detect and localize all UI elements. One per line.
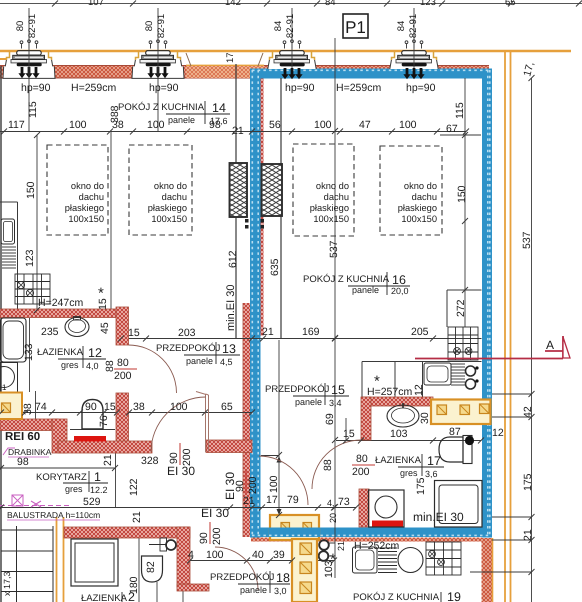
kitchen 14: dishwasher hatch block (2, 247, 16, 268)
svg-text:537: 537 (521, 231, 533, 249)
svg-text:21: 21 (262, 326, 274, 338)
svg-text:12: 12 (413, 384, 425, 396)
svg-text:12: 12 (492, 427, 504, 439)
dimension tick slashes (0, 75, 535, 575)
svg-text:15: 15 (128, 327, 140, 339)
svg-text:17: 17 (225, 52, 236, 63)
svg-text:328: 328 (141, 455, 159, 467)
bottom-left bathroom: shower (71, 539, 118, 586)
svg-text:hp=90: hp=90 (149, 82, 179, 94)
room 15 title (265, 383, 349, 408)
svg-text:30: 30 (419, 412, 431, 424)
svg-text:103: 103 (390, 428, 408, 440)
svg-text:dachu: dachu (162, 192, 187, 202)
svg-text:90: 90 (168, 452, 180, 464)
svg-text:okno do: okno do (154, 181, 187, 191)
row y413 (0, 412, 252, 414)
svg-text:123: 123 (24, 249, 36, 267)
svg-text:150: 150 (25, 181, 37, 199)
svg-text:H=247cm: H=247cm (38, 297, 83, 309)
pink strip under blue bottom edge (251, 538, 482, 542)
svg-text:H=259cm: H=259cm (336, 82, 381, 94)
svg-text:133: 133 (23, 343, 35, 361)
svg-text:15: 15 (97, 298, 109, 310)
door leaf 13->15 open (196, 392, 209, 453)
right inner dim vertical (464, 78, 466, 327)
80/200 stacked room17 door (352, 453, 375, 478)
recessed roof part between window 2 and 3 (186, 66, 264, 79)
box vertical below (292, 539, 317, 602)
svg-text:100x150: 100x150 (68, 214, 104, 224)
window W2 (131, 8, 184, 131)
svg-text:16: 16 (392, 273, 406, 287)
svg-text:180: 180 (128, 576, 140, 594)
svg-text:200: 200 (114, 370, 132, 382)
blue top edge (250, 69, 492, 79)
window W3 (on blue band) (268, 8, 316, 79)
svg-text:H=259cm: H=259cm (71, 82, 116, 94)
row y413 (35, 401, 233, 413)
row y338 (128, 326, 429, 339)
svg-text:200: 200 (352, 466, 370, 478)
svg-text:115: 115 (454, 102, 466, 119)
kitchen 19: boiler circle (398, 548, 423, 573)
svg-text:90: 90 (234, 480, 246, 492)
svg-text:100: 100 (69, 119, 87, 131)
svg-text:20,0: 20,0 (391, 286, 409, 296)
lazienka 17: toilet (439, 437, 463, 462)
svg-text:169: 169 (302, 326, 320, 338)
svg-text:PRZEDPOKÓJ: PRZEDPOKÓJ (265, 383, 330, 395)
svg-text:17: 17 (266, 494, 278, 506)
svg-text:18: 18 (276, 571, 290, 585)
svg-text:100: 100 (314, 119, 332, 131)
svg-text:47: 47 (359, 119, 371, 131)
svg-text:21: 21 (243, 495, 255, 507)
svg-text:76: 76 (98, 415, 110, 427)
svg-text:235: 235 (41, 326, 59, 338)
svg-text:80: 80 (117, 357, 129, 369)
svg-text:płaskiego: płaskiego (148, 203, 187, 213)
box at bathroom12 left (0, 393, 22, 420)
window W4 (on blue band) (390, 8, 438, 79)
svg-text:płaskiego: płaskiego (398, 203, 437, 213)
far right dim chain (531, 78, 533, 602)
svg-text:21: 21 (336, 541, 346, 551)
top dimension row (0, 131, 466, 133)
svg-text:82-91: 82-91 (285, 14, 296, 38)
svg-text:okno do: okno do (71, 181, 104, 191)
wall B vertical: x117 (116, 307, 129, 345)
svg-text:15: 15 (331, 383, 345, 397)
svg-text:19: 19 (447, 590, 461, 602)
bottom rows (188, 494, 299, 561)
svg-text:100: 100 (147, 119, 165, 131)
svg-text:hp=90: hp=90 (21, 82, 51, 94)
hp / H labels (21, 82, 436, 94)
room 19 title (353, 590, 461, 602)
svg-text:4,5: 4,5 (220, 357, 233, 367)
svg-text:x 17,3: x 17,3 (2, 571, 12, 596)
svg-text:gres: gres (400, 468, 418, 478)
svg-text:płaskiego: płaskiego (65, 203, 104, 213)
svg-text:dachu: dachu (324, 192, 349, 202)
top orange line (0, 50, 571, 52)
svg-text:100x150: 100x150 (313, 214, 349, 224)
wall between 13 and 15 (206, 440, 252, 453)
svg-text:80: 80 (356, 453, 368, 465)
svg-text:74: 74 (35, 401, 47, 413)
svg-text:200: 200 (181, 448, 193, 466)
svg-text:635: 635 (269, 258, 281, 276)
svg-text:45: 45 (99, 322, 111, 334)
svg-text:107: 107 (88, 0, 104, 8)
svg-text:17: 17 (427, 454, 441, 468)
svg-text:REI 60: REI 60 (5, 431, 40, 443)
svg-text:21: 21 (131, 511, 143, 523)
svg-text:12: 12 (88, 346, 102, 360)
svg-text:100x150: 100x150 (151, 214, 187, 224)
bathroom 12: bathtub (1, 318, 27, 362)
svg-text:117: 117 (8, 119, 25, 131)
kitchen 16 annex: hatch block (451, 364, 465, 385)
svg-text:388: 388 (109, 105, 121, 123)
svg-text:175: 175 (522, 473, 534, 491)
svg-text:ŁAZIENKA: ŁAZIENKA (37, 347, 84, 358)
svg-text:79: 79 (287, 494, 299, 506)
svg-text:1: 1 (94, 470, 101, 484)
rotated window labels (15, 14, 419, 38)
svg-text:56: 56 (269, 119, 281, 131)
svg-text:537: 537 (328, 240, 340, 258)
svg-text:73: 73 (338, 496, 350, 508)
svg-text:min.EI 30: min.EI 30 (413, 510, 464, 524)
bottom-left bathroom: toilet (142, 556, 163, 582)
door arcs (129, 345, 362, 590)
room 16 title (303, 272, 410, 296)
svg-text:14: 14 (212, 101, 226, 115)
svg-text:H=252cm: H=252cm (354, 540, 399, 552)
alcove lines (447, 289, 482, 291)
90/200 rotated room13->korytarz (168, 443, 193, 466)
svg-text:200: 200 (211, 527, 223, 545)
svg-text:98: 98 (17, 456, 29, 468)
svg-text:80: 80 (144, 21, 155, 32)
shaft corridor walls (235, 64, 237, 338)
svg-text:82-91: 82-91 (27, 14, 38, 38)
svg-text:panele: panele (168, 115, 195, 125)
svg-text:ŁAZIENKA: ŁAZIENKA (81, 593, 128, 602)
svg-text:82-91: 82-91 (408, 14, 419, 38)
svg-text:272: 272 (455, 299, 467, 317)
room 14 title (118, 101, 230, 126)
kitchen 19: hatch block (378, 548, 397, 573)
bathroom 12: wash basin (65, 318, 89, 337)
svg-text:PRZEDPOKÓJ: PRZEDPOKÓJ (210, 571, 275, 583)
svg-text:POKÓJ Z KUCHNIA: POKÓJ Z KUCHNIA (353, 591, 440, 602)
svg-text:100: 100 (206, 549, 224, 561)
kitchen counter left col (17, 202, 19, 310)
room 12 title (37, 346, 106, 371)
svg-text:82-91: 82-91 (156, 14, 167, 38)
svg-text:84: 84 (273, 21, 284, 32)
svg-text:123: 123 (420, 0, 436, 8)
bathroom 12 bottom walls / REI60 (0, 419, 58, 431)
red solid bars (74, 436, 106, 442)
lazienka 17: washing machine (369, 490, 405, 527)
svg-text:100: 100 (170, 401, 188, 413)
svg-text:płaskiego: płaskiego (310, 203, 349, 213)
80/200 stacked room13 door (114, 357, 137, 382)
dash texture on blue (252, 70, 491, 536)
orange vertical double line right (504, 52, 506, 602)
svg-text:dachu: dachu (412, 192, 437, 202)
svg-text:A: A (546, 338, 554, 352)
svg-text:90: 90 (198, 532, 210, 544)
svg-text:panele: panele (186, 356, 213, 366)
svg-text:200: 200 (247, 476, 259, 494)
svg-text:82: 82 (145, 561, 157, 573)
svg-text:98: 98 (209, 119, 221, 131)
90/200 rotated near EI30 blue (234, 471, 259, 494)
row y440 (336, 440, 482, 442)
svg-text:100: 100 (268, 475, 280, 493)
svg-text:panele: panele (240, 585, 267, 595)
svg-text:POKÓJ Z KUCHNIA: POKÓJ Z KUCHNIA (118, 101, 205, 113)
svg-text:529: 529 (83, 496, 101, 508)
svg-text:DRABINKA: DRABINKA (8, 447, 52, 457)
kitchen 14: cooker grid (15, 274, 50, 304)
lazienka 17: shower (435, 481, 483, 528)
pink strip right of blue left edge (261, 79, 264, 336)
svg-text:*: * (374, 373, 380, 390)
svg-text:4,: 4, (327, 498, 335, 508)
svg-text:EI 30: EI 30 (201, 506, 229, 520)
top edge dimension line (0, 0, 582, 8)
svg-text:gres: gres (61, 360, 79, 370)
bathroom 12: washer circle (0, 363, 18, 394)
box right of lazienka 17 (431, 400, 491, 425)
korytarz rows (0, 467, 115, 469)
blue right edge (482, 69, 492, 538)
svg-text:13: 13 (222, 342, 236, 356)
svg-text:84: 84 (396, 21, 407, 32)
svg-text:100: 100 (399, 119, 417, 131)
svg-text:203: 203 (178, 327, 196, 339)
roof hatch band (0, 66, 489, 79)
svg-text:87: 87 (449, 426, 461, 438)
svg-text:67: 67 (446, 123, 458, 135)
svg-text:115: 115 (27, 101, 39, 118)
svg-text:20: 20 (328, 513, 338, 523)
vertical x111 (110, 131, 112, 309)
room 18 title (210, 571, 290, 596)
blue bottom edge (250, 528, 492, 538)
kitchen 19: cooker grid (426, 542, 461, 575)
kitchen 16 annex: knobs (466, 366, 476, 376)
svg-text:4,0: 4,0 (86, 361, 99, 371)
svg-text:205: 205 (411, 326, 429, 338)
svg-text:612: 612 (227, 250, 239, 268)
room 13 title (156, 342, 240, 367)
long chain line from P1 (334, 38, 336, 578)
korytarz toilet with 90 (82, 400, 103, 430)
svg-text:100x150: 100x150 (401, 214, 437, 224)
svg-text:38: 38 (133, 401, 145, 413)
svg-text:KORYTARZ: KORYTARZ (36, 472, 87, 483)
svg-text:min.EI 30: min.EI 30 (225, 285, 237, 331)
svg-text:1: 1 (2, 383, 7, 392)
blue band over box O3 (269, 528, 320, 538)
box at unit16 bottom corner horizontal (270, 515, 319, 540)
svg-text:142: 142 (225, 0, 241, 8)
kitchen 14: sink (1, 219, 15, 244)
svg-text:BALUSTRADA h=110cm: BALUSTRADA h=110cm (7, 510, 100, 520)
svg-text:hp=90: hp=90 (285, 82, 315, 94)
room 17 title (375, 454, 444, 479)
dim numbers row y128 (8, 119, 458, 137)
svg-text:103: 103 (323, 560, 335, 578)
svg-text:21: 21 (232, 125, 244, 137)
svg-text:okno do: okno do (404, 181, 437, 191)
dim line x37 (36, 135, 38, 310)
row y338 (121, 338, 482, 340)
svg-text:39: 39 (273, 549, 285, 561)
svg-text:90: 90 (85, 401, 97, 413)
orange vertical double line bottom-left (56, 517, 58, 602)
wall A: top of bathroom 12 (0, 309, 117, 318)
svg-text:88: 88 (322, 459, 334, 471)
svg-text:P1: P1 (345, 18, 366, 37)
svg-text:80: 80 (15, 21, 26, 32)
row 15/17 dims (343, 426, 461, 440)
svg-text:3,4: 3,4 (329, 398, 342, 408)
svg-text:panele: panele (352, 285, 379, 295)
kitchen 19: sink (353, 547, 378, 573)
kitchen 16 annex: cooker grid (448, 327, 478, 360)
svg-text:12.2: 12.2 (90, 485, 108, 495)
svg-text:okno do: okno do (316, 181, 349, 191)
svg-text:3,0: 3,0 (274, 586, 287, 596)
svg-text:PRZEDPOKÓJ: PRZEDPOKÓJ (156, 342, 221, 354)
svg-text:150: 150 (456, 185, 468, 203)
svg-text:122: 122 (128, 478, 140, 496)
svg-text:175: 175 (415, 477, 427, 495)
window W1 (2, 8, 55, 131)
pink strip left of blue left edge (lower part) (243, 303, 250, 537)
svg-text:panele: panele (295, 397, 322, 407)
exterior wall below blue right corner (482, 538, 493, 602)
walls of lazienka 17 (363, 397, 433, 406)
svg-text:dachu: dachu (79, 192, 104, 202)
korytarz title (36, 470, 108, 495)
svg-text:84: 84 (325, 0, 336, 8)
kitchen 16 annex: sink (424, 363, 451, 385)
left building edge (0, 66, 2, 602)
svg-text:21: 21 (102, 454, 114, 466)
korytarz bottom wall (64, 527, 190, 538)
svg-text:ŁAZIENKA: ŁAZIENKA (375, 455, 422, 466)
gas points circles bottom (319, 540, 329, 550)
svg-text:65: 65 (221, 401, 233, 413)
svg-text:40: 40 (252, 549, 264, 561)
svg-text:POKÓJ Z KUCHNIA: POKÓJ Z KUCHNIA (303, 273, 390, 285)
lazienka 17: wash basin (387, 405, 419, 427)
stairs bottom-left (1, 526, 53, 602)
svg-text:gres: gres (65, 484, 83, 494)
svg-text:69: 69 (324, 413, 336, 425)
svg-text:hp=90: hp=90 (406, 82, 436, 94)
blue left edge (250, 69, 261, 538)
90/200 rotated room18 door (198, 522, 223, 545)
bottom rows (183, 560, 334, 562)
